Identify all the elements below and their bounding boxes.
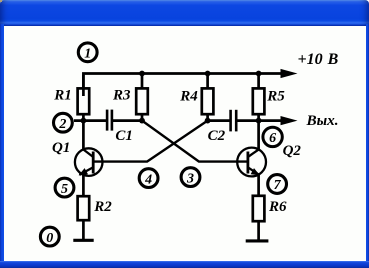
node 0	[40, 227, 59, 246]
node 2	[54, 113, 73, 132]
resistor R4	[202, 74, 214, 122]
resistor R3	[136, 74, 148, 122]
junction dot R4 bottom	[205, 118, 211, 124]
+10V rail arrowhead	[281, 69, 298, 78]
resistor R1	[78, 75, 90, 121]
window left border	[0, 24, 4, 261]
wire node2 to C1	[74, 119, 106, 122]
svg-text:4: 4	[144, 172, 152, 187]
output wire	[259, 119, 282, 122]
svg-text:C1: C1	[115, 128, 133, 144]
svg-text:Q2: Q2	[283, 143, 302, 159]
node 6	[263, 127, 282, 146]
svg-text:R2: R2	[93, 199, 112, 215]
junction dot rail/R5	[256, 71, 262, 77]
svg-text:R3: R3	[112, 88, 131, 104]
output arrowhead	[281, 116, 298, 125]
corner pixel artifact	[0, 0, 2, 2]
transistor Q1	[75, 121, 103, 197]
node 3	[181, 168, 200, 187]
transistor Q2	[237, 121, 266, 197]
ground symbol left	[73, 239, 93, 242]
wire C1 to R3 node	[113, 119, 143, 122]
svg-text:R6: R6	[268, 199, 287, 215]
svg-text:7: 7	[274, 178, 282, 193]
cross-coupling wire R4 to Q1 base	[94, 121, 208, 162]
node 1	[78, 43, 97, 62]
capacitor C1	[107, 110, 112, 131]
svg-text:Вых.: Вых.	[306, 112, 339, 129]
svg-text:1: 1	[84, 47, 91, 62]
resistor R6	[253, 196, 265, 241]
svg-text:+10 В: +10 В	[298, 51, 339, 68]
window right border	[366, 24, 369, 261]
svg-text:C2: C2	[208, 128, 226, 144]
+10V supply rail wire	[83, 74, 282, 97]
svg-text:3: 3	[186, 171, 194, 186]
svg-text:0: 0	[46, 231, 53, 246]
svg-text:R4: R4	[179, 88, 198, 104]
cross-coupling wire R3 to Q2 base	[142, 121, 247, 162]
resistor R2	[78, 196, 90, 240]
capacitor C2	[231, 110, 237, 132]
wire C2 to R5 node	[237, 119, 259, 122]
node 5	[55, 178, 74, 197]
ground symbol right	[246, 239, 269, 242]
window title bar	[0, 0, 369, 26]
node 7	[268, 175, 287, 194]
junction dot R5 bottom	[256, 118, 262, 124]
junction dot rail/R4	[205, 71, 211, 77]
junction dot R1 bottom	[81, 118, 87, 124]
window bottom border	[0, 261, 369, 268]
svg-text:5: 5	[61, 182, 68, 197]
svg-text:2: 2	[58, 117, 66, 132]
svg-text:R1: R1	[53, 88, 72, 104]
wire R4 node to C2	[208, 119, 230, 122]
svg-text:6: 6	[269, 131, 276, 146]
svg-text:Q1: Q1	[52, 140, 70, 156]
resistor R5	[253, 74, 265, 122]
junction dot rail/R3	[139, 71, 145, 77]
node 4	[139, 169, 158, 188]
svg-text:R5: R5	[266, 88, 285, 104]
junction dot R3 bottom	[139, 118, 145, 124]
